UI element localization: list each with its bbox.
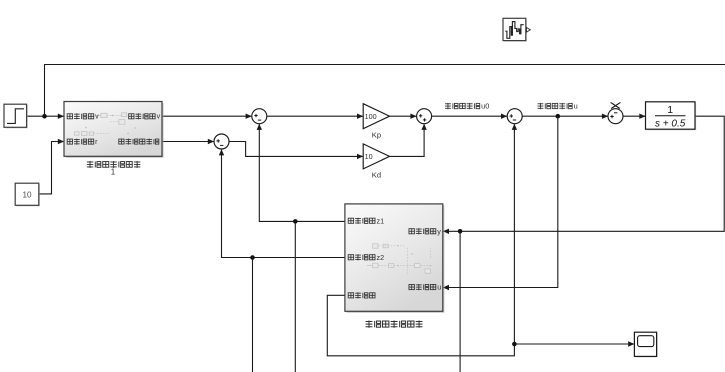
source block with staircase signal (top) bbox=[503, 18, 530, 42]
observer port label 控制扰动 bbox=[348, 292, 375, 298]
svg-text:1: 1 bbox=[111, 168, 116, 177]
svg-text:y: y bbox=[437, 227, 441, 236]
svg-text:z2: z2 bbox=[377, 253, 385, 262]
wire sum3 to sum4 (u0) bbox=[432, 114, 508, 119]
wire TD out1 (v1) to sum1 bbox=[162, 114, 252, 119]
TD port label 输入信号v bbox=[67, 113, 99, 120]
wire TD out2 (v2) to sum2 bbox=[162, 139, 214, 144]
node junction on y feedback bbox=[458, 229, 463, 234]
svg-text:10: 10 bbox=[22, 190, 32, 199]
wire Kd to sum3 bottom bbox=[390, 124, 427, 157]
wire sum1 to gain Kp bbox=[267, 114, 363, 119]
wire branch to scope bbox=[514, 341, 634, 346]
scope block (bottom right) bbox=[634, 332, 657, 357]
transfer fcn block 1/(s+0.5) bbox=[646, 102, 697, 131]
svg-text:z1: z1 bbox=[377, 216, 385, 225]
svg-text:u: u bbox=[437, 283, 441, 292]
svg-text:1: 1 bbox=[667, 104, 673, 116]
wire observer z1 to sum1 bottom bbox=[257, 124, 345, 222]
constant block 10 bbox=[15, 183, 40, 206]
sum block sum1 (v1 - z1) bbox=[252, 109, 267, 124]
wire z2 branch down to bottom edge bbox=[252, 258, 254, 372]
observer inner preview sketch bbox=[367, 244, 432, 274]
subsystem 线性跟踪微分器 (tracking differentiator) bbox=[64, 102, 164, 158]
svg-text:u0: u0 bbox=[481, 102, 489, 111]
wire sum4 to sum5 (u) bbox=[522, 114, 608, 119]
node junction on z2 wire bbox=[250, 255, 255, 260]
TD port label 过渡目标v bbox=[129, 113, 161, 120]
step source block bbox=[4, 104, 28, 128]
svg-text:v: v bbox=[95, 114, 99, 121]
sum block sum5 (disturbance adder) bbox=[608, 109, 623, 124]
svg-text:Kp: Kp bbox=[372, 130, 381, 139]
wire Kp to sum3 bbox=[390, 114, 417, 119]
svg-text:s + 0.5: s + 0.5 bbox=[655, 118, 686, 129]
TD port label 收敛速度r bbox=[67, 139, 98, 146]
signal label 控制器输出u0 bbox=[445, 102, 489, 111]
observer port label 估计状态z1 bbox=[348, 216, 384, 225]
wire observer z3 (控制扰动) around bottom up to sum4 bbox=[327, 124, 517, 356]
observer port label 估计状态z2 bbox=[348, 253, 384, 262]
observer block name 扩张状态观测器 bbox=[366, 320, 423, 327]
svg-text:u: u bbox=[574, 102, 578, 111]
gain Kd bbox=[363, 144, 389, 180]
svg-text:10: 10 bbox=[365, 152, 373, 161]
wire y branch down to bottom edge bbox=[459, 231, 461, 372]
wire step output to TD input with branch up bbox=[27, 114, 64, 119]
gain Kp bbox=[363, 104, 389, 140]
TD port label 过渡曲线微分 bbox=[119, 139, 159, 145]
node branch junction after step bbox=[42, 114, 47, 119]
wire constant 10 to TD port 2 bbox=[39, 139, 64, 194]
sum block sum2 (v2 - z2) bbox=[214, 134, 229, 149]
subsystem 扩张状态观测器 (extended state observer) bbox=[345, 204, 445, 313]
wire reference feedforward to top right edge bbox=[45, 65, 725, 117]
svg-text:Kd: Kd bbox=[372, 171, 381, 180]
sum block sum3 (Kp+Kd) bbox=[417, 109, 432, 124]
observer port label 控制输入u bbox=[409, 283, 441, 292]
wire plant output to right edge and feedback y to observer bbox=[443, 116, 724, 234]
node junction on z3 riser bbox=[512, 342, 517, 347]
svg-text:100: 100 bbox=[365, 112, 377, 121]
node junction on u wire bbox=[556, 114, 561, 119]
wire sum5 to transfer fcn bbox=[623, 114, 646, 119]
sum block sum4 (u0 - z3) bbox=[507, 109, 522, 124]
signal label 最终控制量u bbox=[537, 102, 577, 111]
TD inner preview sketch bbox=[75, 113, 139, 136]
TD block name 线性跟踪微分器 bbox=[87, 161, 141, 168]
wire z1 branch down to bottom edge bbox=[294, 221, 296, 372]
svg-text:v: v bbox=[157, 114, 161, 121]
node junction on z1 wire bbox=[293, 219, 298, 224]
sum5 unconnected top port mark bbox=[611, 102, 621, 108]
wire u feedback down to observer input 控制输入u bbox=[443, 116, 558, 290]
observer port label 实际状态y bbox=[409, 227, 441, 236]
wire sum2 to gain Kd bbox=[229, 142, 363, 160]
wire observer z2 to sum2 bottom bbox=[219, 149, 345, 257]
